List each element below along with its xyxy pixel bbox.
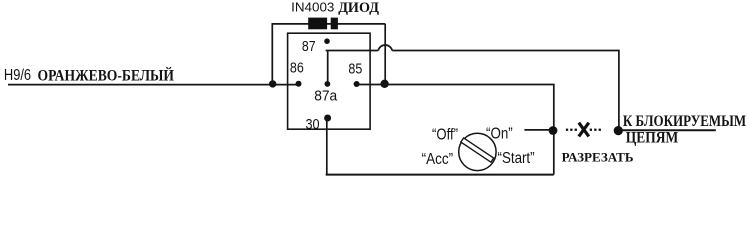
svg-text:ДИОД: ДИОД (338, 0, 379, 16)
pin 86 dot (296, 81, 302, 87)
pin 87a dot (325, 81, 331, 87)
label pin 87 (302, 39, 316, 55)
label IN4003 (291, 0, 334, 15)
svg-text:ОРАНЖЕВО-БЕЛЫЙ: ОРАНЖЕВО-БЕЛЫЙ (38, 66, 175, 85)
wire main input H9/6 (8, 84, 298, 86)
wire pin 30 drop (326, 118, 328, 175)
label pin 85 (348, 62, 362, 78)
wire from hop to right corner and down (392, 51, 619, 131)
node junction 85 / coil (380, 80, 388, 88)
wire cut dashes right (590, 129, 601, 131)
node junction left of cut (549, 126, 558, 135)
label ЦЕПЯМ (626, 129, 679, 146)
label On (486, 126, 513, 143)
wire pin 87a riser (327, 51, 329, 84)
label pin 87a (314, 88, 338, 104)
label Off (432, 126, 458, 143)
wire cut dashes left (566, 129, 577, 131)
label pin 86 (290, 61, 304, 77)
wire hop over vertical (378, 45, 392, 51)
svg-text:IN4003: IN4003 (291, 0, 334, 15)
label К БЛОКИРУЕМЫМ (623, 113, 747, 130)
svg-text:87а: 87а (314, 88, 338, 104)
svg-text:30: 30 (306, 117, 320, 133)
svg-text:Н9/6: Н9/6 (4, 67, 31, 84)
svg-text:“Start”: “Start” (498, 150, 535, 167)
wire bottom run (326, 174, 554, 176)
svg-text:87: 87 (302, 39, 316, 55)
diode VD1 cathode band (331, 18, 338, 30)
label Н9/6 (4, 67, 31, 84)
ignition switch body (459, 133, 496, 170)
label ДИОД (338, 0, 379, 16)
label ОРАНЖЕВО-БЕЛЫЙ (38, 66, 175, 85)
svg-text:К БЛОКИРУЕМЫМ: К БЛОКИРУЕМЫМ (623, 113, 747, 130)
svg-text:86: 86 (290, 61, 304, 77)
svg-text:“Off”: “Off” (432, 126, 458, 143)
pin 87 dot (324, 38, 330, 44)
diode VD1 IN4003 body (308, 18, 327, 30)
pin 85 dot (354, 81, 360, 87)
svg-text:“On”: “On” (486, 126, 513, 143)
wire from ignition switch On terminal (524, 129, 549, 131)
wire diode loop top (272, 23, 386, 25)
node junction right of cut (614, 126, 623, 135)
pin 30 dot (324, 115, 331, 122)
wire from pin 85 to switch-side vertical (357, 85, 554, 175)
svg-text:ЦЕПЯМ: ЦЕПЯМ (626, 129, 679, 146)
ignition switch key slot (461, 138, 494, 162)
svg-text:85: 85 (348, 62, 362, 78)
label РАЗРЕЗАТЬ (562, 151, 634, 165)
cut mark X (579, 123, 589, 137)
wire diode loop right vertical (384, 24, 386, 84)
label pin 30 (306, 117, 320, 133)
label Start (498, 150, 535, 167)
svg-text:“Acc”: “Acc” (422, 151, 454, 168)
wire diode loop left vertical (271, 24, 273, 84)
wire from pin 87 left segment (326, 50, 379, 52)
label Acc (422, 151, 454, 168)
svg-text:РАЗРЕЗАТЬ: РАЗРЕЗАТЬ (562, 151, 634, 165)
node junction on main wire (diode loop left) (269, 80, 276, 87)
wire to blocked circuits (618, 129, 716, 131)
relay K1 body (288, 33, 371, 129)
